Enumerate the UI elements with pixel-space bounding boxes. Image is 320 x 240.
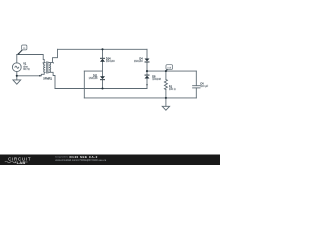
svg-text:1N4148: 1N4148 — [106, 60, 115, 63]
transformer T1 secondary coil — [49, 63, 51, 73]
wire capacitor bottom lead — [195, 88, 197, 98]
wire top horizontal V1 to transformer — [17, 55, 44, 63]
capacitor C4 plates — [193, 85, 200, 87]
wire D11 anode from mid-left node — [102, 71, 104, 76]
wire D1 anode to mid-left node — [102, 61, 104, 71]
wire D8 anode down to AC2 line — [146, 79, 148, 89]
transformer core lines — [46, 62, 48, 73]
wire rail to D1 cathode — [102, 49, 104, 58]
junction dot top rail / D14 — [101, 48, 103, 50]
wire mid-left down to bottom rail — [83, 71, 85, 98]
svg-text:100 Ω: 100 Ω — [169, 88, 176, 91]
flag "in" — [18, 45, 27, 55]
wire mid-left horizontal — [84, 70, 102, 72]
wire V1 bottom riser — [16, 72, 18, 76]
wire ground stem left — [16, 76, 18, 80]
svg-text:XFMR1: XFMR1 — [43, 77, 52, 81]
ground left triangle — [13, 80, 21, 84]
wire mid-right to load — [147, 70, 196, 72]
wire bottom rail — [84, 97, 196, 99]
wire D4 cathode to mid-right node — [146, 62, 148, 71]
svg-text:1N4148: 1N4148 — [89, 77, 98, 80]
pin dot D8 anode lead — [146, 84, 147, 85]
junction dot mid-right node — [146, 70, 148, 72]
svg-text:100 µF: 100 µF — [200, 85, 208, 88]
junction dot AC2 / D11 — [101, 87, 103, 89]
labels — [23, 57, 208, 91]
wire AC2 line — [55, 88, 147, 90]
CircuitLab logo — [5, 156, 32, 165]
wire capacitor top lead — [195, 71, 197, 86]
transformer phase dot left — [43, 62, 44, 63]
footer bar — [0, 155, 220, 166]
wire ground stem right — [165, 98, 167, 106]
voltage source V1 circle — [12, 63, 21, 72]
ground right triangle — [162, 106, 169, 110]
flag "out" — [166, 65, 173, 72]
wire secondary top to top rail — [49, 49, 58, 62]
wire secondary bottom lead — [49, 72, 55, 88]
wire V1 bottom to transformer primary bottom — [17, 72, 44, 76]
V1 sine glyph — [15, 66, 19, 68]
wire D11 cathode down to AC2 line — [102, 80, 104, 89]
junction dot out node — [165, 70, 167, 72]
junction dot bottom rail / resistor — [165, 97, 167, 99]
wire rail to D4 anode — [146, 49, 148, 59]
junction dot V1 bottom — [16, 75, 18, 77]
svg-text:1N4148: 1N4148 — [134, 60, 143, 63]
diode D14 (upper left, cathode up) — [100, 57, 105, 60]
svg-text:1N4148: 1N4148 — [152, 78, 161, 81]
wire V1 top riser — [16, 55, 18, 63]
svg-text:out: out — [167, 65, 171, 69]
resistor R1 zigzag — [164, 80, 167, 90]
transformer phase dot right — [53, 62, 54, 63]
diode D4 (upper right, cathode down) — [145, 59, 150, 62]
svg-text:60 Hz: 60 Hz — [23, 68, 30, 71]
diode D8 (lower right, cathode up) — [145, 74, 150, 77]
wire top rail — [58, 48, 148, 50]
svg-text:www.circuitlab.com/c/7249kq847: www.circuitlab.com/c/7249kq847/d140-see-… — [55, 159, 106, 162]
wire mid-right node to D8 cathode — [146, 71, 148, 75]
svg-text:LAB: LAB — [17, 160, 26, 165]
transformer T1 primary coil — [44, 63, 46, 73]
pin dot primary bottom jog — [39, 75, 41, 77]
wire resistor bottom lead — [165, 90, 167, 98]
diode D11 (lower left, cathode down) — [100, 76, 105, 79]
wire resistor top lead — [165, 71, 167, 79]
